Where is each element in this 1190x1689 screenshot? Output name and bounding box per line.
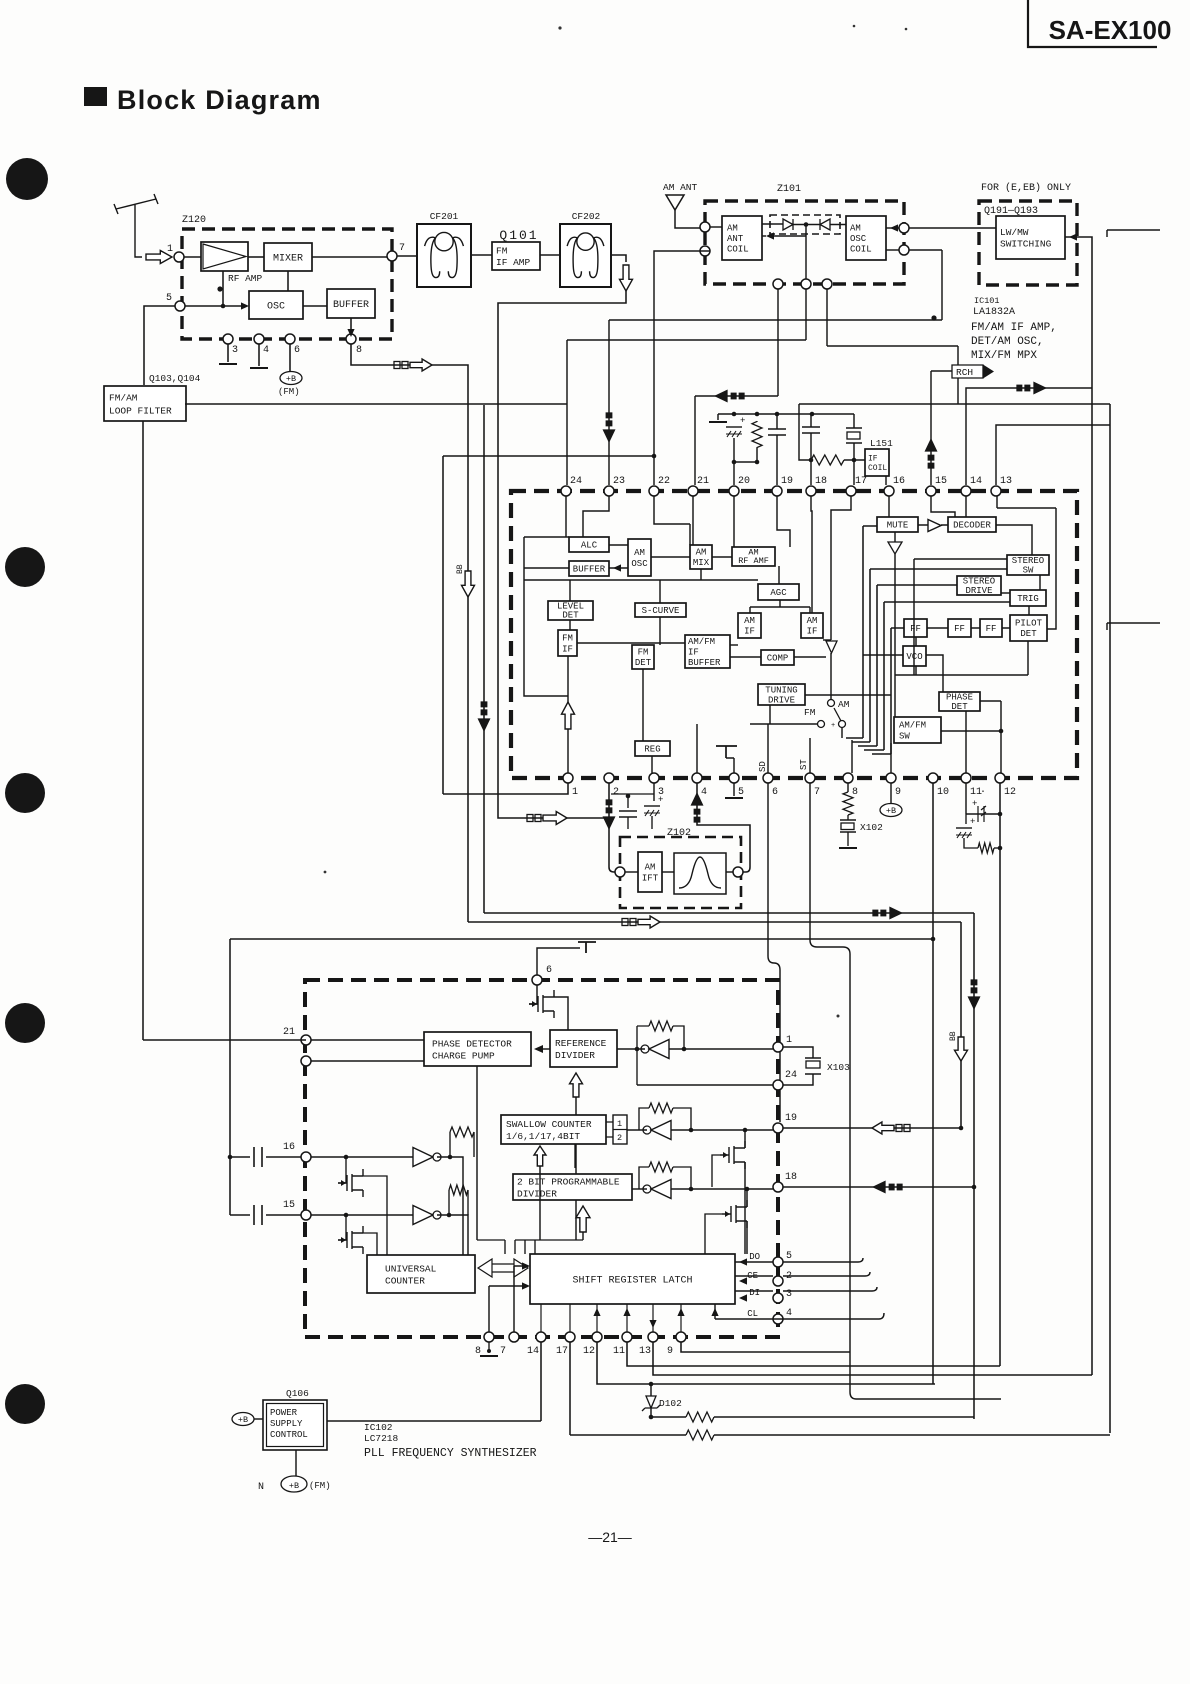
arrowhead3 up into SRL (677, 1308, 684, 1316)
FM IF amplifier Q101 (492, 242, 540, 270)
jog line to right (827, 345, 958, 347)
header corner rule (1028, 0, 1157, 47)
svg-text:AM: AM (727, 223, 738, 233)
wire pin 10 long down (932, 783, 934, 1384)
junction (447, 1213, 452, 1218)
svg-text:RCH: RCH (956, 367, 973, 378)
wire pin16 to MUTE (888, 496, 890, 517)
wire pin 8 interior (851, 740, 853, 773)
junction diodes (804, 222, 809, 227)
ground flag pin 6 (578, 942, 596, 953)
wire FM DET to REG (642, 669, 644, 741)
right bus from VT line down (1109, 404, 1111, 1433)
2 BIT PROGRAMMABLE DIVIDER block (513, 1174, 632, 1200)
svg-text:+: + (831, 722, 835, 730)
wire CF201 to FM IF AMP (471, 254, 492, 256)
wire DO out (783, 1258, 863, 1262)
fb corner A2 (473, 1132, 475, 1157)
corner down to L151 row (799, 404, 811, 460)
inverter pin 18 (643, 1185, 651, 1193)
Z120 pin 1 (174, 252, 184, 262)
IC101 pin 16 (884, 486, 894, 496)
stub6 (574, 1150, 576, 1168)
PHASE DETECTOR CHARGE PUMP block (424, 1032, 531, 1066)
svg-text:MIXER: MIXER (273, 253, 303, 264)
interior left rail (524, 537, 569, 696)
IC102 pin 2 CE (773, 1276, 783, 1286)
svg-text:+: + (658, 795, 663, 805)
wire buffer to AM IF (730, 644, 738, 646)
IC101 pin 7 (805, 773, 815, 783)
wire VCO to PHASE DET (926, 655, 943, 692)
top rail above IC101 (718, 413, 854, 415)
wires diode row (762, 223, 846, 226)
IC102 bottom pin 13 (648, 1332, 658, 1342)
wire pin 7 up (514, 1266, 524, 1332)
wire inverter to pin 19 (671, 1129, 773, 1131)
ground top rail (709, 421, 727, 423)
resistor row 1 (686, 1412, 714, 1422)
svg-text:TUNING: TUNING (765, 685, 797, 695)
IC101 pin 24 (561, 486, 571, 496)
wire to S-CURVE (659, 580, 661, 603)
arrowhead into OSC COIL (890, 224, 898, 231)
IC102 pin 18 (773, 1182, 783, 1192)
Z120 pin 5 (175, 301, 185, 311)
solid arrow into pin 18 (872, 1181, 886, 1194)
wire select to inverter (627, 1129, 647, 1131)
fb corner A (449, 1132, 451, 1157)
AM antenna (666, 195, 684, 210)
junction (999, 729, 1004, 734)
wire OSC COIL to right pin (886, 227, 899, 229)
scanner speck 2 (853, 25, 856, 28)
svg-text:SHIFT REGISTER LATCH: SHIFT REGISTER LATCH (572, 1275, 692, 1286)
wire to FM contact (750, 723, 817, 725)
wire LEVEL DET to FM IF (569, 620, 571, 630)
svg-text:15: 15 (283, 1200, 295, 1211)
svg-text:CL: CL (747, 1309, 758, 1319)
arrowhead into OSC (241, 302, 249, 309)
svg-text:DO: DO (749, 1252, 760, 1262)
hollow arrow into REFERENCE DIVIDER (570, 1073, 583, 1097)
wire to pin 21 branch (695, 395, 778, 397)
junction (755, 460, 760, 465)
svg-text:21: 21 (697, 476, 709, 487)
resistor to IF coil (811, 455, 844, 465)
ink blob junction (931, 315, 936, 320)
svg-text:MUTE: MUTE (887, 521, 909, 531)
svg-text:16: 16 (283, 1142, 295, 1153)
IC102 pin 24 (773, 1080, 783, 1090)
stub4 (964, 838, 978, 848)
wire 2bit arrow down (582, 1232, 584, 1240)
Z102 left pin (615, 867, 625, 877)
SWALLOW COUNTER block (501, 1115, 606, 1144)
crystal X102 (840, 820, 856, 832)
svg-text:LW/MW: LW/MW (1000, 227, 1029, 238)
rail ground stub (717, 414, 719, 420)
jog down to VT line (957, 346, 959, 404)
svg-text:SD: SD (758, 761, 768, 772)
svg-text:Q103,Q104: Q103,Q104 (149, 373, 201, 384)
scanner speck 3 (905, 28, 908, 31)
svg-text:DECODER: DECODER (953, 521, 991, 531)
long wire loop filter to pin 21 (143, 421, 306, 1040)
wire resonator to pin 17 (853, 414, 855, 485)
wire to ANT COIL return (770, 235, 806, 237)
jog line pin 24 (567, 339, 806, 341)
IC102 pin 1 (773, 1042, 783, 1052)
wire SRL to bottom pin 681 (680, 1304, 682, 1332)
svg-text:4: 4 (263, 345, 269, 356)
svg-text:BUFFER: BUFFER (333, 300, 369, 311)
arrowhead2 up into SRL (623, 1308, 630, 1316)
svg-text:UNIVERSAL: UNIVERSAL (385, 1263, 437, 1274)
wire cap to pin 15 (266, 1214, 301, 1216)
junction (959, 1126, 964, 1131)
svg-text:AM: AM (850, 223, 861, 233)
long wire to PILOT DET bottom (895, 641, 1028, 675)
wire AM MIX bottom (700, 569, 702, 580)
ALC block (569, 537, 609, 552)
svg-text:1: 1 (786, 1035, 792, 1046)
svg-text:10: 10 (937, 787, 949, 798)
junction (626, 794, 631, 799)
wire cap row (966, 813, 1000, 815)
interior bus line 1 (846, 526, 877, 738)
wire DI (735, 1290, 773, 1292)
RCH output flag (952, 365, 983, 378)
wire pin6 into FET (529, 985, 537, 1004)
AM IFT coil (638, 852, 662, 892)
IC101 pin 23 (604, 486, 614, 496)
wire RD arrow down (575, 1097, 577, 1240)
svg-text:FM: FM (562, 634, 573, 644)
svg-text:COIL: COIL (868, 464, 887, 473)
wire TRIG to PILOT DET (1028, 606, 1030, 615)
svg-text:IC101: IC101 (974, 296, 1000, 306)
AM/FM SW block (894, 717, 941, 743)
wire SRL to bottom pin 570 (569, 1304, 571, 1332)
wire AM OSC to BUFFER (609, 567, 628, 569)
Z101 bottom pin 1 (773, 279, 783, 289)
feedback corner2 (673, 1026, 684, 1049)
IC101 pin 22 (649, 486, 659, 496)
wire Z101 right lower out (909, 249, 942, 251)
wire bus C corner to cap 15 (230, 1214, 250, 1216)
wire to LEVEL DET (569, 580, 571, 601)
AM RF AMP block (732, 547, 775, 566)
IC102 bottom pin 9 (676, 1332, 686, 1342)
wire Z101 pin to ANT COIL (710, 226, 722, 228)
AM IF block right (801, 613, 823, 638)
svg-text:ST: ST (799, 759, 809, 770)
svg-text:Z102: Z102 (667, 828, 691, 839)
MOSFET pin 18 branch (722, 1200, 747, 1228)
wire pin17 to AM switch (831, 496, 851, 640)
wire IC101 pin 6 to PLL pin 19 (768, 783, 780, 1122)
svg-text:FM: FM (496, 246, 508, 257)
svg-text:CF202: CF202 (572, 211, 601, 222)
svg-text:PHASE DETECTOR: PHASE DETECTOR (432, 1038, 512, 1049)
Z101 left pin lower (700, 246, 710, 256)
wire VCO left (863, 654, 903, 656)
FET B out (363, 1233, 377, 1255)
wire BUFFER to pin 8 (350, 318, 352, 333)
svg-text:COIL: COIL (727, 244, 749, 254)
capacitor pin 19 (768, 429, 786, 435)
REG block (635, 741, 670, 756)
Z120 pin 3 (223, 334, 233, 344)
Z101 left pin upper (700, 222, 710, 232)
IC102 pin 3 DI (773, 1293, 783, 1303)
svg-text:5: 5 (738, 787, 744, 798)
svg-text:13: 13 (639, 1346, 651, 1357)
svg-text:14: 14 (970, 476, 982, 487)
wires counter to select (606, 1122, 613, 1137)
TRIG block (1010, 590, 1046, 606)
junction (852, 458, 857, 463)
wire pin4 to Z102 right (697, 783, 750, 872)
svg-text:STEREO: STEREO (1012, 556, 1044, 566)
svg-text:Q106: Q106 (286, 1388, 309, 1399)
IC101 pin 18 (806, 486, 816, 496)
wire pin15 to inverter B (311, 1214, 413, 1216)
wire pin 11 row (627, 1342, 1000, 1366)
svg-text:15: 15 (935, 476, 947, 487)
FET A gate (338, 1157, 346, 1183)
svg-text:IFT: IFT (642, 874, 659, 884)
IC102 bottom pin 14 (536, 1332, 546, 1342)
mixer block (264, 243, 312, 271)
svg-text:DIVIDER: DIVIDER (555, 1050, 595, 1061)
wire pin15 to DECODER (931, 496, 955, 517)
wire PILOT DET right loop to pin 13 (997, 496, 1056, 629)
svg-text:CHARGE PUMP: CHARGE PUMP (432, 1050, 495, 1061)
Q191-Q193 dashed box (979, 201, 1077, 285)
binding hole dot 5 (5, 1384, 45, 1424)
wire resistor to IF coil (844, 459, 865, 461)
arrowhead into pin 8 (347, 329, 354, 337)
wire pin5 to OSC (185, 305, 243, 307)
svg-text:4: 4 (701, 787, 707, 798)
wire IF coil to pin 16 (885, 476, 887, 485)
wire pin 9 to +B (890, 783, 892, 803)
junction (998, 812, 1003, 817)
flip-flop FF2 (948, 619, 971, 637)
IC101 pin 19 (772, 486, 782, 496)
wire SRL to bottom pin 627 (626, 1304, 628, 1332)
svg-text:1: 1 (167, 244, 173, 255)
svg-text:SW: SW (1023, 565, 1034, 575)
wire SRL to bottom pin 653 (652, 1304, 654, 1332)
wire Z101 bottom pin1 down (777, 289, 779, 396)
IC101 pin 3 (649, 773, 659, 783)
interior bus line 4 (864, 602, 1010, 750)
junction (775, 412, 780, 417)
arrowhead into SRL left (522, 1282, 530, 1289)
wire pin 7 interior (809, 738, 811, 773)
junction (745, 1187, 750, 1192)
svg-text:6: 6 (772, 787, 778, 798)
wire swallow arrow down (539, 1166, 541, 1240)
bus line A horizontal (484, 912, 974, 914)
svg-text:FF: FF (954, 624, 965, 634)
wire AM OSC to AM MIX (651, 556, 690, 558)
ground pin 4 (250, 367, 268, 369)
svg-text:PLL FREQUENCY SYNTHESIZER: PLL FREQUENCY SYNTHESIZER (364, 1447, 537, 1460)
pin 8 ground stub (488, 1342, 490, 1352)
stub (847, 815, 849, 820)
wire Z102 left to AM IFT (625, 871, 638, 873)
svg-text:AM/FM: AM/FM (899, 721, 926, 731)
wire pin 14 to power supply control (327, 1342, 541, 1421)
wire pin 12 row (597, 1342, 935, 1384)
svg-text:IF: IF (688, 647, 699, 657)
wire pin 24 up (566, 340, 568, 485)
svg-text:MIX: MIX (693, 558, 710, 568)
svg-text:OSC: OSC (850, 234, 867, 244)
solid arrow right bus A (889, 907, 903, 920)
svg-text:SWALLOW COUNTER: SWALLOW COUNTER (506, 1119, 592, 1130)
interior ground flag (716, 746, 737, 758)
svg-text:TRIG: TRIG (1017, 594, 1039, 604)
svg-text:2: 2 (617, 1133, 622, 1143)
capacitor pin 15 (254, 1205, 262, 1225)
IC102 bottom pin 17 (565, 1332, 575, 1342)
arrowhead into PHASE DETECTOR (534, 1045, 543, 1053)
solid bus down from VT line (483, 405, 485, 913)
FET A out (363, 1176, 387, 1255)
UNIVERSAL COUNTER block (367, 1255, 475, 1293)
wire CL out (783, 1313, 884, 1319)
wire FET branch down (744, 1130, 746, 1254)
svg-text:FF: FF (986, 624, 997, 634)
wire pin 12 long down (999, 783, 1001, 1366)
wire pin4 to ground (258, 344, 260, 366)
IC102 pin 4 CL (773, 1314, 783, 1324)
svg-text:6: 6 (294, 345, 300, 356)
long FM IF wire to IC101 pin 2 (498, 291, 626, 818)
crystal X103 (805, 1058, 821, 1074)
arrowhead down from SRL (649, 1320, 656, 1328)
wire pin 18 to bus A (783, 1186, 974, 1188)
junction (689, 1128, 694, 1133)
svg-text:9: 9 (667, 1346, 673, 1357)
svg-text:24: 24 (785, 1070, 797, 1081)
svg-text:DET: DET (951, 702, 968, 712)
svg-text:(FM): (FM) (278, 387, 300, 397)
IC101 pin 9 (886, 773, 896, 783)
hollow triangle below MUTE (888, 542, 902, 554)
ground X102 (839, 847, 857, 849)
wire ecap to pin 20 (733, 438, 735, 485)
feedback corner pin18b (673, 1167, 691, 1189)
svg-text:FOR (E,EB) ONLY: FOR (E,EB) ONLY (981, 182, 1071, 194)
solid arrow up pin 4 (691, 792, 704, 806)
wire pin 24 (637, 1084, 773, 1086)
wire divider to inverter (632, 1188, 647, 1190)
wire pin 5 ground (733, 783, 735, 796)
svg-text:DET/AM OSC,: DET/AM OSC, (971, 336, 1044, 348)
fb corner B (448, 1190, 450, 1215)
hollow arrow into 2BIT DIVIDER (576, 1206, 590, 1232)
wire Z101 lower left to IC101 pin 22 (654, 251, 710, 485)
ground pin 8 PLL (480, 1355, 498, 1357)
wire SRL to bottom pin 597 (596, 1304, 598, 1332)
wire inverter B out down (437, 1215, 468, 1255)
wire pin20 to AM RF AMP (733, 496, 735, 547)
wire pin 13 up to right bus (996, 425, 1110, 485)
Z101 bottom pin 3 (822, 279, 832, 289)
solid arrow down bus A (968, 996, 981, 1010)
Z101 bottom pin 2 (801, 279, 811, 289)
solid arrow up pin 15 (925, 438, 938, 452)
junction (810, 412, 815, 417)
buffer triangle after MUTE (928, 520, 941, 532)
wire MUTE to triangle (894, 532, 896, 542)
STEREO SW block (1007, 555, 1049, 575)
inverter pin 19 (643, 1126, 651, 1134)
wire MUTE to DECODER (918, 524, 948, 526)
wire pin 9 interior (890, 743, 892, 773)
svg-text:N: N (258, 1482, 264, 1493)
IC101 pin 11 (961, 773, 971, 783)
wire CF202 out (611, 255, 626, 262)
svg-text:Q101: Q101 (499, 228, 538, 243)
solid arrow down pin 23 line (603, 429, 616, 443)
svg-text:COMP: COMP (767, 654, 789, 664)
svg-text:BUFFER: BUFFER (688, 658, 721, 668)
wire FET2 branch down (746, 1189, 748, 1254)
wire PHASE DET right (980, 700, 1001, 702)
fb corner B2 (467, 1190, 469, 1215)
hollow arrow down bus B (955, 1037, 968, 1061)
svg-text:STEREO: STEREO (963, 576, 995, 586)
IC102 bottom pin 11 (622, 1332, 632, 1342)
svg-text:+B: +B (238, 1415, 248, 1425)
wire ALC to AM OSC (609, 544, 628, 546)
wire cap to pin 16 (266, 1156, 301, 1158)
wire pin2 to Z102 (609, 783, 616, 872)
stub2 (1106, 623, 1108, 630)
Z101 AM antenna unit dashed box (705, 201, 904, 284)
junction (682, 1047, 687, 1052)
wire CL (715, 1304, 783, 1319)
MUTE block (877, 517, 918, 532)
arrowhead2 into SRL left (522, 1262, 530, 1269)
svg-text:23: 23 (613, 476, 625, 487)
wire pin21b to phase detector (311, 1060, 424, 1062)
svg-text:7: 7 (500, 1346, 506, 1357)
AM OSC block (628, 539, 651, 576)
wire DI out (783, 1287, 877, 1291)
svg-text:IF: IF (562, 645, 573, 655)
wire STEREO DRIVE to TRIG (1001, 592, 1010, 594)
DECODER block (948, 517, 996, 532)
capacitor pin2/3 (619, 811, 637, 817)
swallow counter bottom stub (574, 1144, 576, 1150)
svg-text:AM: AM (696, 548, 707, 558)
wire pin7 to CF201 (397, 255, 417, 257)
wire FM IF to AM/FM IF BUFFER (577, 642, 685, 644)
svg-text:X103: X103 (827, 1062, 850, 1073)
+B (FM) supply (280, 372, 302, 385)
svg-text:IF: IF (868, 454, 878, 463)
FET2 gate wire (705, 1214, 722, 1254)
svg-text:+B: +B (286, 374, 296, 384)
